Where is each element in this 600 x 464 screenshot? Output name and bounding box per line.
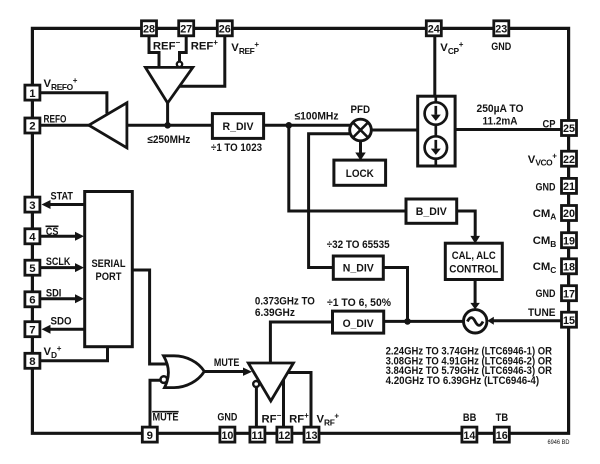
svg-text:6946 BD: 6946 BD xyxy=(548,439,570,446)
svg-text:≤100MHz: ≤100MHz xyxy=(295,111,339,123)
svg-text:SERIAL: SERIAL xyxy=(92,258,126,270)
svg-text:≤250MHz: ≤250MHz xyxy=(147,134,190,146)
svg-text:SCLK: SCLK xyxy=(46,256,71,268)
svg-text:15: 15 xyxy=(563,315,576,327)
svg-text:2: 2 xyxy=(29,121,35,133)
svg-text:23: 23 xyxy=(495,24,507,36)
svg-text:14: 14 xyxy=(463,430,476,442)
svg-text:7: 7 xyxy=(29,324,35,336)
svg-text:CAL, ALC: CAL, ALC xyxy=(452,250,496,262)
svg-text:21: 21 xyxy=(563,181,576,193)
svg-text:÷1 TO 1023: ÷1 TO 1023 xyxy=(211,142,262,154)
svg-text:4.20GHz TO 6.39GHz (LTC6946-4): 4.20GHz TO 6.39GHz (LTC6946-4) xyxy=(386,375,540,387)
svg-text:N_DIV: N_DIV xyxy=(343,263,375,275)
svg-text:8: 8 xyxy=(29,356,35,368)
svg-text:MUTE: MUTE xyxy=(214,357,240,369)
svg-text:27: 27 xyxy=(180,24,192,36)
svg-text:MUTE: MUTE xyxy=(153,412,179,424)
svg-text:20: 20 xyxy=(563,208,575,220)
svg-text:O_DIV: O_DIV xyxy=(343,318,375,330)
svg-text:4: 4 xyxy=(29,232,36,244)
svg-text:GND: GND xyxy=(536,181,556,193)
svg-text:GND: GND xyxy=(491,41,511,53)
svg-text:13: 13 xyxy=(306,430,318,442)
svg-text:TUNE: TUNE xyxy=(528,307,556,319)
svg-text:28: 28 xyxy=(143,24,155,36)
svg-text:24: 24 xyxy=(428,24,441,36)
svg-text:CS: CS xyxy=(46,226,59,238)
svg-text:0.373GHz TO: 0.373GHz TO xyxy=(255,296,315,308)
svg-text:R_DIV: R_DIV xyxy=(223,121,255,133)
svg-text:22: 22 xyxy=(563,154,575,166)
svg-text:SDI: SDI xyxy=(46,288,62,300)
svg-text:PFD: PFD xyxy=(351,104,371,116)
svg-text:25: 25 xyxy=(563,123,576,135)
svg-text:10: 10 xyxy=(221,430,233,442)
svg-text:250µA TO: 250µA TO xyxy=(477,103,524,115)
svg-text:9: 9 xyxy=(147,430,153,442)
svg-text:SDO: SDO xyxy=(51,315,72,327)
svg-text:11: 11 xyxy=(251,430,264,442)
svg-text:B_DIV: B_DIV xyxy=(416,206,448,218)
svg-text:6: 6 xyxy=(29,295,35,307)
svg-text:3: 3 xyxy=(29,200,35,212)
svg-text:TB: TB xyxy=(496,412,509,424)
svg-text:17: 17 xyxy=(563,288,575,300)
svg-text:12: 12 xyxy=(278,430,290,442)
svg-text:REFO: REFO xyxy=(44,113,67,125)
svg-text:19: 19 xyxy=(563,235,575,247)
svg-text:÷32 TO 65535: ÷32 TO 65535 xyxy=(327,239,390,251)
svg-text:1: 1 xyxy=(29,88,36,100)
svg-text:PORT: PORT xyxy=(96,271,122,283)
svg-text:GND: GND xyxy=(217,412,237,424)
svg-text:GND: GND xyxy=(536,288,556,300)
svg-text:6.39GHz: 6.39GHz xyxy=(255,307,295,319)
svg-text:÷1 TO 6, 50%: ÷1 TO 6, 50% xyxy=(327,297,391,309)
svg-text:LOCK: LOCK xyxy=(346,168,374,180)
svg-text:CP: CP xyxy=(543,119,556,131)
svg-text:BB: BB xyxy=(463,412,477,424)
svg-text:5: 5 xyxy=(29,263,36,275)
svg-text:CONTROL: CONTROL xyxy=(449,263,498,275)
svg-text:18: 18 xyxy=(563,262,575,274)
svg-text:STAT: STAT xyxy=(51,191,74,203)
svg-text:26: 26 xyxy=(219,24,231,36)
svg-text:16: 16 xyxy=(496,430,508,442)
svg-text:11.2mA: 11.2mA xyxy=(483,116,518,128)
